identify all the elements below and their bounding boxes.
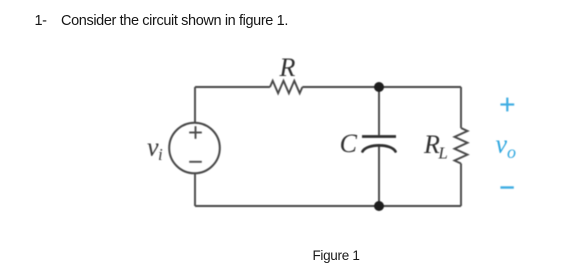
junction node top xyxy=(374,82,384,92)
wire top-left horizontal xyxy=(195,86,270,88)
capacitor C bottom curved plate xyxy=(363,145,396,151)
wire right vertical bottom xyxy=(460,164,462,207)
title text xyxy=(0,0,565,1)
minus sign output (cyan) xyxy=(500,186,513,188)
svg-text:RL: RL xyxy=(423,130,448,163)
minus sign inside source xyxy=(189,161,202,163)
wire capacitor top xyxy=(378,87,380,135)
wire bottom horizontal xyxy=(195,205,461,207)
figure caption xyxy=(290,249,382,263)
svg-text:vo: vo xyxy=(496,130,517,163)
svg-text:C: C xyxy=(340,129,358,158)
wire right vertical top xyxy=(460,87,462,128)
wire left vertical top xyxy=(194,87,196,123)
plus sign inside source xyxy=(189,126,202,139)
junction node bottom xyxy=(374,201,384,211)
capacitor C top plate xyxy=(362,135,396,138)
resistor R xyxy=(270,81,302,93)
resistor RL zigzag xyxy=(455,128,468,164)
svg-text:R: R xyxy=(279,53,296,82)
wire left vertical bottom xyxy=(194,173,196,206)
wire top-right horizontal xyxy=(302,86,461,88)
svg-text:vi: vi xyxy=(147,133,163,165)
source vi circle xyxy=(169,123,220,174)
wire capacitor bottom xyxy=(378,147,380,207)
plus sign output (cyan) xyxy=(500,98,514,112)
